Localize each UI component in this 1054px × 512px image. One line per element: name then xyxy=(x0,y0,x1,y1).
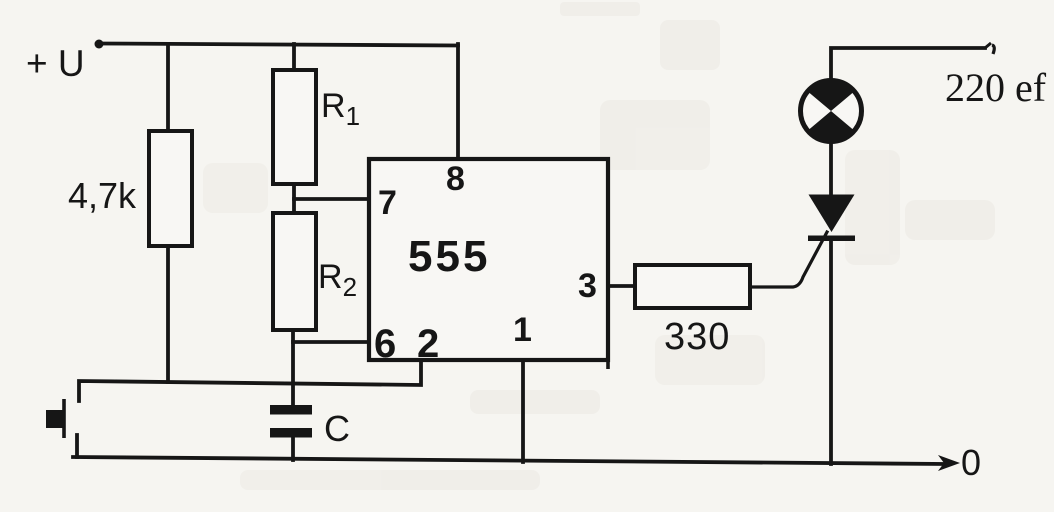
thyristor Q1: SCR anode triangle xyxy=(809,195,855,233)
resistor R1 xyxy=(273,70,316,184)
resistor 4,7k xyxy=(149,131,192,246)
svg-text:7: 7 xyxy=(378,184,397,222)
wire: drop to 4,7k resistor xyxy=(166,44,170,131)
wire: drop to R1 xyxy=(292,44,296,70)
wire: pin 2 drop and horizontal node line to switch xyxy=(79,360,421,401)
switch S1: pushbutton xyxy=(46,399,64,438)
wire: top +U supply rail xyxy=(99,44,458,46)
svg-text:4,7k: 4,7k xyxy=(68,175,137,216)
svg-text:0: 0 xyxy=(961,442,981,483)
wire: switch lower stub to ground rail xyxy=(75,435,79,457)
wire: pin 7 tap xyxy=(294,197,369,201)
wire: R1 bottom to R2 top xyxy=(292,184,296,213)
svg-text:555: 555 xyxy=(408,232,490,281)
wire: ground rail (0 line) xyxy=(73,457,945,464)
capacitor C xyxy=(270,405,312,438)
svg-text:6: 6 xyxy=(374,322,396,366)
wire: R2 bottom down to capacitor xyxy=(291,330,295,405)
node: +U terminal dot xyxy=(95,40,104,49)
svg-text:220 ef: 220 ef xyxy=(945,65,1047,110)
wire: lamp to thyristor anode xyxy=(829,143,833,196)
wire: thyristor cathode down to ground rail xyxy=(829,240,833,464)
terminal: 0 (ground) arrow xyxy=(938,455,960,471)
terminal: 220V open end squiggle xyxy=(985,43,991,48)
resistor 330 xyxy=(635,265,750,308)
svg-text:C: C xyxy=(324,408,350,449)
wire: capacitor bottom to ground rail xyxy=(291,437,295,460)
svg-text:+ U: + U xyxy=(26,43,85,84)
wire: lamp top feed and 220V line xyxy=(831,48,985,82)
op-amp U1: 555 timer IC body xyxy=(369,159,608,369)
wire: 4,7k bottom down to node line xyxy=(166,246,170,382)
svg-text:1: 1 xyxy=(513,311,532,349)
wire: 330 output to thyristor gate xyxy=(750,232,827,287)
svg-text:8: 8 xyxy=(446,160,465,198)
wire: pin 1 drop to ground rail xyxy=(521,360,525,462)
svg-text:3: 3 xyxy=(578,267,597,305)
wire: pin 6 tap xyxy=(293,340,369,344)
lamp LA1: indicator lamp xyxy=(801,79,862,142)
svg-text:330: 330 xyxy=(664,316,730,358)
wire: pin 8 drop to 555 xyxy=(456,44,460,159)
thyristor Q1: cathode bar xyxy=(808,236,855,242)
resistor R2 xyxy=(273,213,316,330)
svg-text:2: 2 xyxy=(417,322,439,366)
wire: pin 3 stub xyxy=(608,284,635,288)
